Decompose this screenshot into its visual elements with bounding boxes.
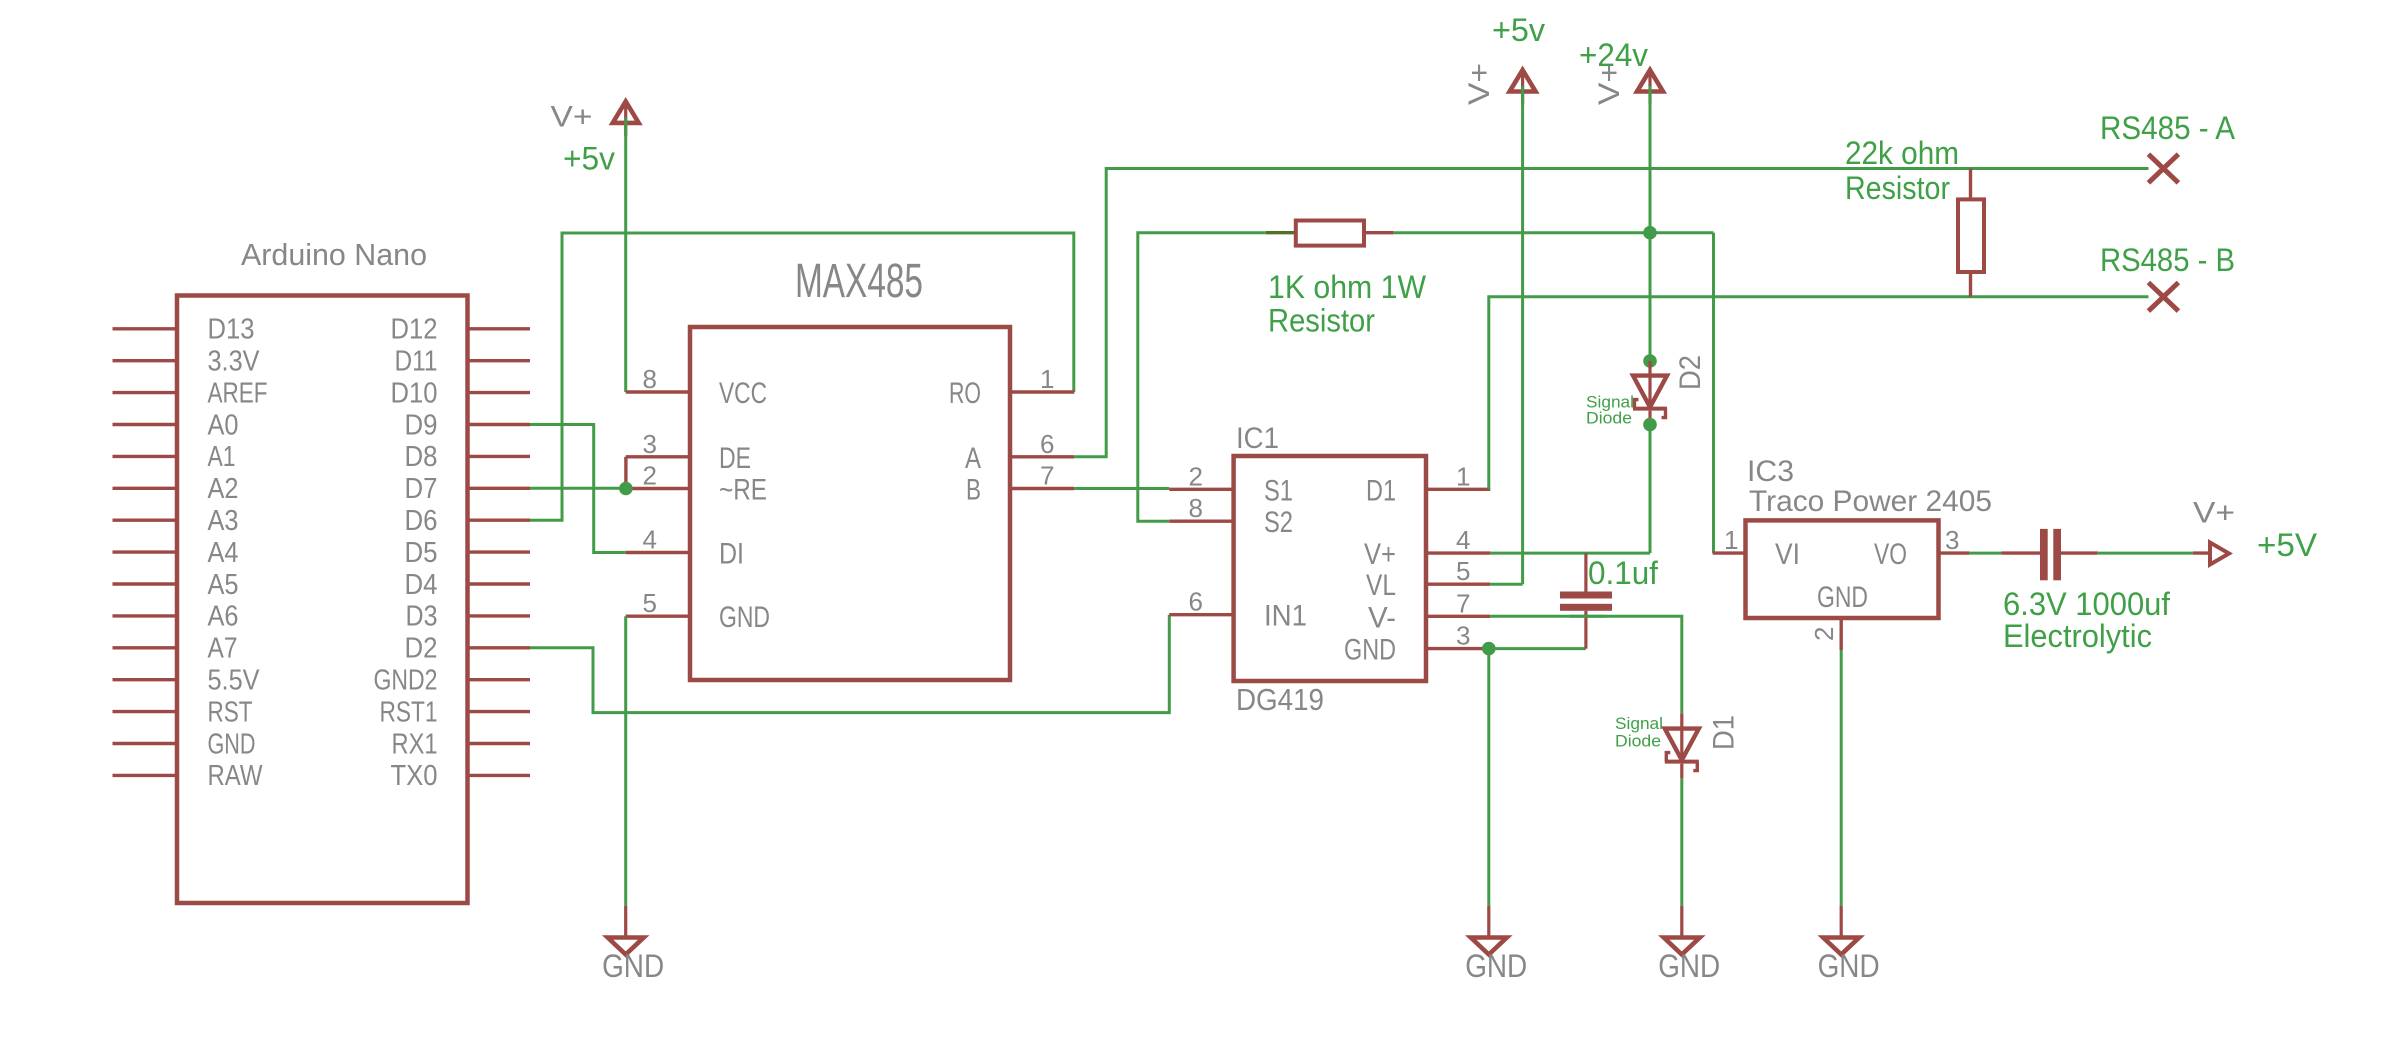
svg-text:GND: GND xyxy=(1658,948,1720,984)
svg-text:RS485 - A: RS485 - A xyxy=(2100,110,2236,146)
Arduino pin D10 (right) xyxy=(391,377,531,409)
Arduino pin A0 (left) xyxy=(113,409,239,441)
wire D7 to MAX485 ~RE/DE xyxy=(530,487,621,490)
svg-text:7: 7 xyxy=(1040,461,1054,491)
svg-text:A1: A1 xyxy=(208,441,236,473)
svg-text:D8: D8 xyxy=(405,441,438,473)
svg-text:S2: S2 xyxy=(1264,506,1293,539)
wire 1K resistor to +24v/VI net xyxy=(1394,231,1714,234)
resistor R2 1K ohm 1W xyxy=(1296,221,1394,246)
diode D2 (signal diode) xyxy=(1633,355,1707,418)
IC1 pin 4 V+ xyxy=(1364,525,1490,571)
svg-text:1: 1 xyxy=(1724,525,1738,555)
svg-text:A0: A0 xyxy=(208,409,239,441)
svg-text:+5v: +5v xyxy=(1492,12,1545,48)
svg-text:RAW: RAW xyxy=(208,760,264,792)
capacitor C1 0.1uf xyxy=(1560,553,1612,649)
svg-text:4: 4 xyxy=(643,525,657,555)
svg-text:AREF: AREF xyxy=(208,377,268,409)
wire down to IC3 VI xyxy=(1712,233,1715,553)
MAX485 pin 1 RO xyxy=(949,364,1074,410)
junction D2 cathode xyxy=(1643,418,1657,432)
wire C2 to +5V output xyxy=(2098,552,2193,555)
IC1 pin 5 VL xyxy=(1366,556,1490,602)
svg-text:8: 8 xyxy=(643,364,657,394)
svg-text:VCC: VCC xyxy=(719,377,767,410)
svg-text:3: 3 xyxy=(1456,621,1470,651)
diode D2 stem xyxy=(1648,361,1651,407)
Arduino pin RST1 (right) xyxy=(380,696,531,728)
svg-text:Resistor: Resistor xyxy=(1268,303,1375,339)
svg-text:GND: GND xyxy=(208,728,256,760)
svg-text:6.3V 1000uf: 6.3V 1000uf xyxy=(2003,586,2170,622)
svg-text:A2: A2 xyxy=(208,473,239,505)
svg-text:RST: RST xyxy=(208,696,253,728)
svg-text:Signal: Signal xyxy=(1615,715,1663,733)
svg-text:Electrolytic: Electrolytic xyxy=(2003,618,2152,654)
Arduino pin D9 (right) xyxy=(405,409,531,441)
svg-text:TX0: TX0 xyxy=(391,760,438,792)
svg-text:GND: GND xyxy=(602,948,664,984)
ground symbol GND (MAX485) xyxy=(602,906,664,984)
svg-text:+24v: +24v xyxy=(1579,37,1648,73)
svg-text:DE: DE xyxy=(719,442,751,475)
IC U2 MAX485 xyxy=(690,255,1010,680)
wire D2 to IC1 IN1 xyxy=(530,615,1169,713)
Arduino pin GND (left) xyxy=(113,728,256,760)
Arduino pin A7 (left) xyxy=(113,633,238,665)
wire IC1 GND down xyxy=(1487,649,1490,906)
svg-text:V+: V+ xyxy=(551,101,593,134)
Arduino pin 3.3V (left) xyxy=(113,346,261,378)
svg-text:22k ohm: 22k ohm xyxy=(1845,135,1959,171)
Arduino pin RST (left) xyxy=(113,696,253,728)
svg-text:Arduino Nano: Arduino Nano xyxy=(241,237,427,272)
IC IC1 DG419 xyxy=(1234,422,1426,717)
svg-text:~RE: ~RE xyxy=(719,474,767,507)
svg-text:+5v: +5v xyxy=(563,140,615,176)
svg-text:A7: A7 xyxy=(208,633,238,665)
svg-text:D5: D5 xyxy=(405,537,438,569)
svg-text:5: 5 xyxy=(1456,556,1470,586)
svg-text:0.1uf: 0.1uf xyxy=(1588,555,1658,591)
svg-text:V+: V+ xyxy=(1463,63,1496,105)
svg-text:3: 3 xyxy=(643,429,657,459)
diode D1 stem xyxy=(1680,713,1683,760)
svg-text:A5: A5 xyxy=(208,569,239,601)
junction IC1 GND / 0.1uf xyxy=(1482,642,1496,656)
Arduino pin D11 (right) xyxy=(395,346,531,378)
svg-text:B: B xyxy=(966,474,981,507)
wire +24v down to D2 xyxy=(1649,86,1652,361)
wire VO to C2 xyxy=(1969,552,2001,555)
Arduino pin A1 (left) xyxy=(113,441,236,473)
Arduino pin GND2 (right) xyxy=(374,665,531,697)
svg-text:A3: A3 xyxy=(208,505,239,537)
svg-text:Traco Power 2405: Traco Power 2405 xyxy=(1749,485,1992,518)
svg-text:2: 2 xyxy=(643,461,657,491)
power symbol V+ +5V output arrow xyxy=(2193,543,2229,565)
Arduino pin A5 (left) xyxy=(113,569,239,601)
Arduino pin A2 (left) xyxy=(113,473,239,505)
power symbol V+ +5v (middle) xyxy=(1510,70,1536,105)
svg-text:IC3: IC3 xyxy=(1747,455,1794,488)
IC IC3 Traco Power 2405 xyxy=(1746,455,1993,618)
svg-text:Resistor: Resistor xyxy=(1845,170,1950,206)
svg-text:Diode: Diode xyxy=(1586,410,1632,428)
wire IC1 GND to 0.1uf xyxy=(1489,647,1586,650)
Arduino pin TX0 (right) xyxy=(391,760,531,792)
svg-text:2: 2 xyxy=(1189,461,1203,491)
Arduino pin A3 (left) xyxy=(113,505,239,537)
svg-text:1: 1 xyxy=(1456,461,1470,491)
junction +24v / 1K net xyxy=(1643,226,1657,240)
svg-text:V+: V+ xyxy=(2193,497,2235,530)
svg-text:8: 8 xyxy=(1189,493,1203,523)
svg-text:D3: D3 xyxy=(406,601,438,633)
svg-text:D1: D1 xyxy=(1708,715,1741,750)
Arduino pin A6 (left) xyxy=(113,601,239,633)
Arduino pin D6 (right) xyxy=(405,505,531,537)
svg-text:GND2: GND2 xyxy=(374,665,438,697)
MAX485 pin 6 A xyxy=(965,429,1074,475)
ground symbol GND (IC3) xyxy=(1818,906,1880,984)
resistor R1 22k ohm xyxy=(1958,169,1984,297)
Arduino pin RX1 (right) xyxy=(392,728,531,760)
svg-text:4: 4 xyxy=(1456,525,1470,555)
svg-text:A4: A4 xyxy=(208,537,239,569)
svg-text:D10: D10 xyxy=(391,377,438,409)
svg-text:VO: VO xyxy=(1874,538,1907,571)
Arduino pin A4 (left) xyxy=(113,537,239,569)
wire D1 pin to RS485-B xyxy=(1489,297,2149,490)
capacitor C2 6.3V 1000uf electrolytic xyxy=(2002,529,2098,580)
svg-text:RST1: RST1 xyxy=(380,696,438,728)
MAX485 pin 4 DI xyxy=(626,525,744,571)
Arduino pin D8 (right) xyxy=(405,441,531,473)
svg-text:A: A xyxy=(965,442,981,475)
svg-text:2: 2 xyxy=(1809,627,1839,641)
svg-text:1: 1 xyxy=(1040,364,1054,394)
MAX485 pin 2 ~RE xyxy=(626,461,767,507)
Arduino pin D3 (right) xyxy=(406,601,531,633)
power symbol V+ +24v xyxy=(1637,70,1663,105)
junction D2 anode xyxy=(1643,354,1657,368)
wire IC1 V+ net xyxy=(1490,552,1650,555)
MAX485 pin 3 DE xyxy=(626,429,751,475)
Arduino pin 5.5V (left) xyxy=(113,665,261,697)
wire D9 to MAX485 DI xyxy=(530,425,626,553)
svg-text:GND: GND xyxy=(1817,581,1868,614)
svg-text:D1: D1 xyxy=(1366,474,1396,507)
MAX485 pin 8 VCC xyxy=(626,364,767,410)
IC1 pin 2 S1 xyxy=(1169,461,1293,507)
IC3 pin 1 VI xyxy=(1713,525,1746,555)
svg-text:GND: GND xyxy=(719,601,770,634)
diode D2 lower stem xyxy=(1648,411,1651,425)
wire V- over C1 xyxy=(1570,615,1605,618)
wire DE to ~RE tie xyxy=(624,457,627,489)
wire to VL pin xyxy=(1490,583,1522,586)
Arduino pin D13 (left) xyxy=(113,314,255,346)
svg-text:GND: GND xyxy=(1344,634,1396,667)
wire V- to D1 diode xyxy=(1490,616,1682,713)
terminal X RS485-A xyxy=(2148,154,2178,183)
svg-text:1K ohm 1W: 1K ohm 1W xyxy=(1268,269,1427,305)
svg-text:D2: D2 xyxy=(1674,355,1707,390)
svg-text:D9: D9 xyxy=(405,409,438,441)
IC1 pin 8 S2 xyxy=(1169,493,1293,539)
svg-text:RS485 - B: RS485 - B xyxy=(2100,242,2235,278)
svg-text:RX1: RX1 xyxy=(392,728,438,760)
IC3 pin 2 GND xyxy=(1809,618,1841,650)
MAX485 pin 7 B xyxy=(966,461,1074,507)
svg-text:VL: VL xyxy=(1366,569,1396,602)
svg-text:MAX485: MAX485 xyxy=(795,255,923,308)
terminal X RS485-B xyxy=(2148,283,2178,312)
ground symbol GND (IC1) xyxy=(1465,906,1527,984)
wire +5v down to IC1 VL xyxy=(1521,86,1524,584)
Arduino pin RAW (left) xyxy=(113,760,264,792)
Arduino pin D2 (right) xyxy=(405,633,531,665)
diode D1 lower stem xyxy=(1680,764,1683,779)
wire IC1 S2 up to 1K resistor xyxy=(1138,233,1266,522)
wire A to RS485-A xyxy=(1074,169,2148,457)
svg-text:5.5V: 5.5V xyxy=(208,665,261,697)
svg-text:5: 5 xyxy=(643,588,657,618)
svg-text:D12: D12 xyxy=(391,314,438,346)
Arduino pin AREF (left) xyxy=(113,377,268,409)
svg-text:D7: D7 xyxy=(405,473,438,505)
svg-text:+5V: +5V xyxy=(2257,527,2318,563)
wire MAX485 GND down xyxy=(624,616,627,906)
wire D2 to V+ pin net xyxy=(1649,425,1652,553)
svg-text:GND: GND xyxy=(1465,948,1527,984)
svg-text:Diode: Diode xyxy=(1615,733,1661,751)
Arduino Nano U1 xyxy=(177,237,468,903)
svg-text:3.3V: 3.3V xyxy=(208,346,261,378)
svg-text:IN1: IN1 xyxy=(1264,600,1307,633)
junction D7/~RE/DE xyxy=(619,482,633,496)
IC1 pin 3 GND xyxy=(1344,621,1490,667)
wire 1K resistor left lead (overlap) xyxy=(1266,231,1296,234)
svg-text:7: 7 xyxy=(1456,588,1470,618)
Arduino pin D4 (right) xyxy=(405,569,531,601)
svg-text:3: 3 xyxy=(1945,525,1959,555)
power symbol V+ +5v (left) xyxy=(613,101,639,135)
wire +5v to MAX485 VCC xyxy=(624,117,627,392)
svg-text:VI: VI xyxy=(1775,538,1800,571)
wire IC3 GND down xyxy=(1840,650,1843,906)
svg-text:A6: A6 xyxy=(208,601,239,633)
svg-text:D6: D6 xyxy=(405,505,438,537)
IC1 pin 7 V- xyxy=(1368,588,1490,634)
diode D1 (signal diode) xyxy=(1665,715,1741,771)
svg-text:6: 6 xyxy=(1040,429,1054,459)
svg-text:GND: GND xyxy=(1818,948,1880,984)
IC1 pin 6 IN1 xyxy=(1169,587,1307,633)
svg-text:V+: V+ xyxy=(1364,538,1396,571)
IC3 pin 3 VO xyxy=(1939,525,1970,555)
svg-text:D11: D11 xyxy=(395,346,438,378)
MAX485 pin 5 GND xyxy=(626,588,770,634)
svg-text:6: 6 xyxy=(1189,587,1203,617)
svg-text:D13: D13 xyxy=(208,314,255,346)
svg-text:S1: S1 xyxy=(1264,474,1293,507)
wire D1 to ground xyxy=(1680,778,1683,905)
svg-text:DG419: DG419 xyxy=(1236,682,1324,717)
Arduino pin D12 (right) xyxy=(391,314,531,346)
svg-text:D4: D4 xyxy=(405,569,438,601)
svg-text:V-: V- xyxy=(1368,601,1396,634)
wire B to IC1 S1 xyxy=(1074,487,1169,490)
svg-text:RO: RO xyxy=(949,377,981,410)
Arduino pin D5 (right) xyxy=(405,537,531,569)
Arduino pin D7 (right) xyxy=(405,473,531,505)
ground symbol GND (D1) xyxy=(1658,906,1720,984)
svg-text:D2: D2 xyxy=(405,633,438,665)
svg-text:DI: DI xyxy=(719,538,744,571)
svg-text:IC1: IC1 xyxy=(1236,422,1279,455)
wire D6 to MAX485 RO xyxy=(530,233,1074,520)
IC1 pin 1 D1 xyxy=(1366,461,1490,507)
